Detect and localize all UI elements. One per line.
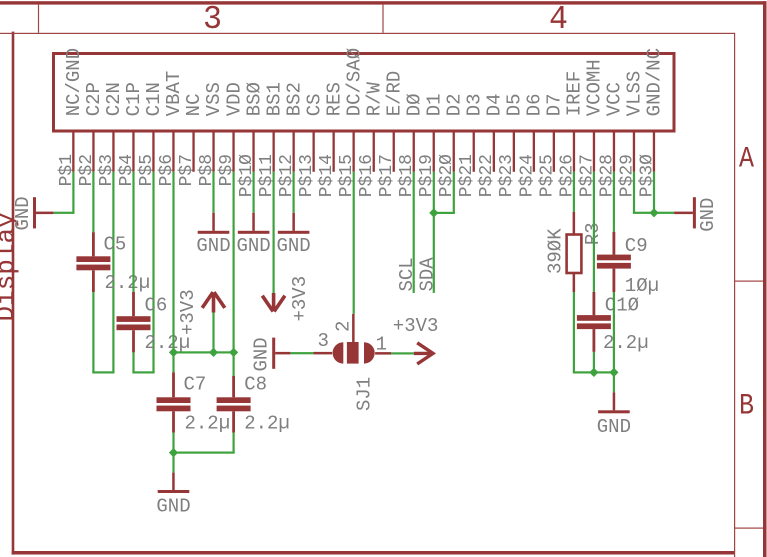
svg-text:P$21: P$21 (457, 154, 477, 197)
svg-text:2.2µ: 2.2µ (185, 412, 231, 434)
ground SJ1 lead (275, 352, 290, 355)
pin P$29 stub (633, 133, 635, 172)
capacitor C8 (217, 397, 251, 403)
node junction P$30 (649, 208, 658, 217)
capacitor C5 top lead (92, 232, 95, 256)
wire VSS P$8 down (212, 172, 214, 213)
svg-text:GND: GND (697, 198, 719, 232)
svg-text:P$7: P$7 (177, 154, 197, 186)
ground VSS bar (198, 231, 230, 234)
wire to GND right (654, 212, 674, 214)
frame row divider A/B (735, 281, 763, 282)
wire C10 down (593, 352, 595, 373)
wire GND bottom left stem (172, 453, 174, 473)
ground GND bottom right bar (598, 410, 630, 413)
jumper SJ1 middle pad (347, 342, 359, 364)
svg-text:DØ: DØ (403, 93, 425, 116)
svg-text:P$22: P$22 (477, 154, 497, 197)
svg-text:1Øµ: 1Øµ (625, 275, 659, 297)
wire C7 bottom (172, 433, 174, 453)
svg-text:R/W: R/W (363, 81, 385, 116)
svg-text:C1N: C1N (143, 82, 165, 116)
svg-text:C6: C6 (145, 295, 168, 317)
wire bottom right rail (573, 371, 615, 373)
node junction C9 rail (609, 368, 618, 377)
svg-text:+3V3: +3V3 (289, 276, 311, 322)
svg-text:C2N: C2N (103, 82, 125, 116)
svg-text:C2P: C2P (83, 82, 105, 116)
pin P$21 stub (473, 133, 475, 172)
pin P$25 stub (553, 133, 555, 172)
svg-text:VDD: VDD (223, 82, 245, 116)
svg-text:2.2µ: 2.2µ (603, 332, 649, 354)
svg-text:P$13: P$13 (297, 154, 317, 197)
svg-text:GND: GND (276, 235, 310, 257)
ground BS0 lead (252, 213, 255, 231)
svg-text:GND: GND (12, 196, 34, 230)
svg-text:C7: C7 (184, 374, 207, 396)
connector box U1 (54, 54, 675, 132)
pin P$3 stub (112, 133, 114, 172)
pin P$24 stub (533, 133, 535, 172)
capacitor C6 bottom lead (132, 330, 135, 352)
frame outer right border (763, 1, 767, 557)
svg-text:GND: GND (597, 416, 631, 438)
svg-text:CS: CS (303, 93, 325, 116)
pin P$27 stub (593, 133, 595, 172)
resistor R3 bottom lead (573, 273, 576, 292)
wire C1N P$5 down (152, 172, 154, 373)
svg-text:4: 4 (549, 1, 568, 38)
svg-text:P$24: P$24 (517, 154, 537, 197)
capacitor C6 top lead (132, 292, 135, 316)
svg-text:D7: D7 (544, 93, 566, 116)
wire C8 top (233, 372, 235, 376)
frame column tick x38 (38, 5, 39, 33)
wire D1 SDA down (433, 172, 435, 293)
jumper SJ1 pin1 lead (375, 352, 391, 355)
pin P$9 stub (232, 133, 234, 172)
ground BS2 lead (292, 213, 295, 231)
ground GND bottom right lead (613, 392, 616, 410)
svg-text:3: 3 (318, 330, 329, 352)
capacitor C9 top lead (613, 232, 616, 255)
jumper SJ1 left pad (333, 342, 344, 363)
pin P$1 stub (72, 133, 74, 172)
svg-text:A: A (739, 143, 754, 177)
pin P$12 stub (293, 133, 295, 172)
frame column tick x383 (382, 5, 383, 33)
svg-text:D2: D2 (444, 93, 466, 116)
capacitor C5 bottom lead (92, 270, 95, 292)
svg-text:2.2µ: 2.2µ (105, 272, 151, 294)
svg-text:DC/SAØ: DC/SAØ (343, 48, 365, 116)
supply +3V3 down arrow (262, 293, 285, 312)
wire C8 bottom (233, 433, 235, 453)
wire loop C6 bottom (132, 371, 154, 373)
wire R3 down (573, 292, 575, 372)
capacitor C9 (597, 255, 631, 261)
svg-text:+3V3: +3V3 (393, 315, 439, 337)
frame outer top border (0, 1, 767, 4)
svg-text:GND: GND (196, 235, 230, 257)
svg-text:BSØ: BSØ (243, 82, 265, 116)
wire BS2 P$12 down (293, 172, 295, 213)
svg-text:GND: GND (250, 337, 272, 371)
node junction VDD rail (229, 348, 238, 357)
wire BS0 P$10 down (253, 172, 255, 213)
wire IREF P$26 down (573, 172, 575, 212)
wire loop C5 bottom (92, 371, 114, 373)
capacitor C8 bottom lead (232, 411, 235, 432)
svg-text:P$16: P$16 (357, 154, 377, 197)
ground GND bottom left lead (172, 473, 175, 490)
jumper SJ1 pin3 lead (313, 352, 332, 355)
wire C1P P$4 down (132, 172, 134, 292)
svg-text:C1Ø: C1Ø (605, 295, 639, 317)
svg-text:D6: D6 (524, 93, 546, 116)
svg-text:2: 2 (332, 321, 354, 332)
svg-text:SDA: SDA (416, 257, 438, 292)
svg-text:VSS: VSS (203, 82, 225, 116)
svg-text:NC/GND: NC/GND (63, 48, 85, 116)
svg-text:P$14: P$14 (317, 154, 337, 197)
pin P$8 stub (212, 133, 214, 172)
capacitor C10 (577, 315, 611, 321)
pin P$28 stub (613, 133, 615, 172)
frame inner right line (734, 33, 735, 557)
pin P$7 stub (192, 133, 194, 172)
wire D0 SCL down (413, 172, 415, 293)
supply +3V3 up arrow (202, 292, 225, 312)
svg-text:B: B (739, 390, 754, 424)
capacitor C6 (117, 316, 151, 322)
wire D2 to D1 (433, 212, 455, 214)
frame left border (12, 32, 15, 555)
ground VSS lead (212, 213, 215, 231)
wire D2 P$20 down (453, 172, 455, 213)
capacitor C9 bottom lead (613, 269, 616, 292)
wire C5 down (92, 292, 94, 372)
svg-text:D1: D1 (424, 93, 446, 116)
node junction arrow rail (209, 348, 218, 357)
wire DC/SA0 P$15 down (353, 172, 355, 314)
svg-text:SJ1: SJ1 (353, 377, 375, 411)
frame inner top line (0, 33, 735, 34)
svg-text:3: 3 (203, 1, 222, 38)
node junction VBAT rail (169, 348, 178, 357)
svg-text:SCL: SCL (396, 257, 418, 291)
frame row divider B bottom (735, 528, 763, 529)
svg-text:D5: D5 (504, 93, 526, 116)
pin P$19 stub (433, 133, 435, 172)
svg-text:NC: NC (183, 93, 205, 116)
ground GND left lead (36, 212, 54, 215)
ground GND right bar (693, 197, 696, 228)
pin P$16 stub (373, 133, 375, 172)
pin P$22 stub (493, 133, 495, 172)
svg-text:GND: GND (156, 496, 190, 518)
pin P$23 stub (513, 133, 515, 172)
pin P$6 stub (172, 133, 174, 172)
wire C2P P$2 down (92, 172, 94, 232)
capacitor C7 top lead (172, 372, 175, 397)
wire SJ1 pin3 gnd (290, 352, 313, 354)
jumper SJ1 pin2 lead (352, 314, 355, 342)
wire P$1 down (72, 172, 74, 213)
svg-text:VBAT: VBAT (163, 71, 185, 117)
wire C2N P$3 down (112, 172, 114, 373)
wire P$1 to GND left (53, 212, 74, 214)
svg-text:VCC: VCC (604, 82, 626, 116)
pin P$13 stub (313, 133, 315, 172)
svg-text:IREF: IREF (564, 71, 586, 117)
svg-text:D4: D4 (484, 93, 506, 116)
svg-text:D3: D3 (464, 93, 486, 116)
svg-text:P$25: P$25 (537, 154, 557, 197)
wire +3V3 arrow stem (212, 313, 214, 353)
wire GND right stem (613, 372, 615, 392)
capacitor C8 top lead (232, 376, 235, 397)
wire C7 C8 bottom rail (172, 452, 234, 454)
wire C7 top (172, 352, 174, 372)
resistor R3 top lead (573, 212, 576, 234)
wire VDD P$9 down (233, 172, 235, 373)
supply +3V3 right arrow (414, 343, 433, 364)
ground BS0 bar (238, 231, 270, 234)
svg-text:VCOMH: VCOMH (584, 59, 606, 116)
capacitor C5 (76, 256, 110, 262)
svg-text:C5: C5 (104, 233, 127, 255)
pin P$17 stub (393, 133, 395, 172)
wire +3V3 rail (172, 351, 234, 353)
wire VCC P$28 down (613, 172, 615, 232)
frame bottom border (12, 551, 735, 555)
pin P$10 stub (252, 133, 254, 172)
wire VLSS right (633, 212, 654, 214)
svg-text:GND/NC: GND/NC (644, 48, 666, 116)
pin P$4 stub (132, 133, 134, 172)
node junction C7 gnd (169, 448, 178, 457)
wire SJ1 pin1 3v3 (391, 352, 414, 354)
resistor R3 (567, 235, 582, 274)
svg-text:+3V3: +3V3 (177, 289, 199, 335)
node junction C10 rail (589, 368, 598, 377)
pin P$26 stub (573, 133, 575, 172)
svg-text:P$17: P$17 (377, 154, 397, 197)
wire GND/NC P$30 down (653, 172, 655, 213)
wire VLSS P$29 down (633, 172, 635, 213)
wire C6 down (132, 352, 134, 372)
pin P$18 stub (413, 133, 415, 172)
wire VCOMH P$27 down (593, 172, 595, 292)
svg-text:P$23: P$23 (497, 154, 517, 197)
svg-text:2.2µ: 2.2µ (244, 412, 290, 434)
svg-text:C8: C8 (244, 374, 267, 396)
pin P$20 stub (453, 133, 455, 172)
ground BS2 bar (278, 231, 310, 234)
svg-text:C9: C9 (625, 235, 648, 257)
wire C9 down (613, 292, 615, 372)
pin P$14 stub (333, 133, 335, 172)
wire BS1 P$11 down (273, 172, 275, 293)
capacitor C10 top lead (593, 292, 596, 315)
wire VBAT P$6 down (172, 172, 174, 353)
ground GND left bar (33, 197, 36, 228)
pin P$15 stub (353, 133, 355, 172)
svg-text:GND: GND (236, 235, 270, 257)
node junction D1 D2 (429, 208, 438, 217)
ground SJ1 bar (272, 338, 275, 369)
svg-text:39ØK: 39ØK (545, 228, 567, 274)
svg-text:BS2: BS2 (283, 82, 305, 116)
svg-text:RES: RES (323, 82, 345, 116)
ground GND right lead (674, 212, 693, 215)
capacitor C7 bottom lead (172, 411, 175, 432)
capacitor C7 (157, 397, 191, 403)
capacitor C10 bottom lead (593, 329, 596, 352)
pin P$30 stub (653, 133, 655, 172)
jumper SJ1 right pad (364, 342, 375, 363)
svg-text:C1P: C1P (123, 82, 145, 116)
svg-text:E/RD: E/RD (383, 71, 405, 117)
ground GND bottom left bar (158, 490, 190, 493)
pin P$5 stub (152, 133, 154, 172)
pin P$2 stub (92, 133, 94, 172)
pin P$11 stub (273, 133, 275, 172)
svg-text:VLSS: VLSS (624, 71, 646, 117)
svg-text:BS1: BS1 (263, 82, 285, 116)
